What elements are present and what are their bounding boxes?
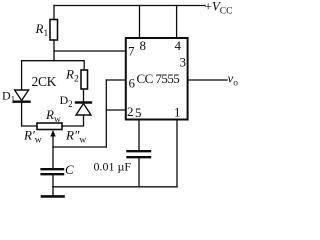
label CC 7555: [137, 71, 180, 86]
svg-text:vo: vo: [228, 71, 239, 89]
wire node to pin 7: [54, 50, 126, 52]
pin 5: [135, 105, 142, 120]
wire pin 8 stub: [139, 6, 141, 39]
svg-text:2: 2: [127, 104, 134, 119]
label D2: [60, 93, 73, 109]
svg-text:2CK: 2CK: [32, 74, 57, 89]
svg-text:3: 3: [180, 55, 187, 70]
svg-text:D2: D2: [60, 93, 73, 109]
wire wiper node down to C: [52, 147, 54, 168]
svg-text:R1: R1: [35, 21, 49, 39]
pin 1: [174, 105, 181, 120]
capacitor C: [42, 169, 63, 174]
svg-text:0.01 µF: 0.01 µF: [94, 160, 132, 174]
diode D1: [14, 90, 30, 102]
label +Vcc: [205, 0, 233, 17]
svg-text:+VCC: +VCC: [205, 0, 233, 17]
diode D2: [76, 103, 91, 116]
label R2: [65, 67, 79, 85]
svg-text:6: 6: [129, 76, 136, 91]
pin 4: [175, 38, 182, 53]
label R'w: [23, 128, 42, 146]
resistor R2: [81, 70, 88, 89]
resistor R1: [50, 20, 58, 41]
pin 7: [128, 44, 135, 59]
wire pin 5 stub: [138, 120, 140, 151]
wire D2 cathode to R2: [83, 89, 85, 103]
pin 3: [180, 55, 187, 70]
wire D1 cathode down: [22, 103, 37, 126]
wire R1 top: [53, 6, 55, 20]
wire top +Vcc rail: [54, 5, 205, 7]
ground: [42, 187, 64, 197]
wire pin 2 stub: [106, 109, 126, 111]
svg-text:R2: R2: [65, 67, 79, 85]
pin 2: [127, 104, 134, 119]
wire horizontal D1-R2 top: [22, 60, 84, 62]
svg-text:D1: D1: [2, 89, 15, 105]
label vo: [228, 71, 239, 89]
svg-text:CC 7555: CC 7555: [137, 71, 180, 86]
capacitor 0.01uF: [128, 151, 151, 157]
op-amp U1 CC7555 box: [126, 38, 188, 120]
wire pin 1 stub: [176, 120, 178, 187]
wire pin 3 output: [188, 79, 227, 81]
svg-text:R″w: R″w: [65, 128, 86, 146]
svg-text:4: 4: [175, 38, 182, 53]
wire R1 bottom to node: [53, 40, 55, 61]
wire tie vertical pins 2-6: [105, 80, 107, 147]
svg-text:8: 8: [140, 38, 147, 53]
label 2CK: [32, 74, 57, 89]
potentiometer Rw body: [37, 123, 62, 130]
svg-text:C: C: [65, 162, 74, 177]
label 0.01 uF: [94, 160, 132, 174]
pin 8: [140, 38, 147, 53]
label D1: [2, 89, 15, 105]
label R1: [35, 21, 49, 39]
svg-text:7: 7: [128, 44, 135, 59]
wire Rw right to D2 anode: [62, 115, 84, 126]
svg-text:1: 1: [174, 105, 181, 120]
wire D1 anode: [21, 61, 23, 90]
wire pin 6 stub: [106, 79, 126, 81]
label C: [65, 162, 74, 177]
label Rw: [45, 107, 61, 125]
wire C bottom to rail: [52, 175, 54, 186]
wiper arrow of Rw: [50, 130, 55, 147]
wire wiper to tie node: [53, 146, 106, 148]
wire pin 4 stub: [176, 6, 178, 39]
wire R2 top: [83, 61, 85, 70]
wire 0.01uF bottom to rail: [138, 159, 140, 187]
label R''w: [65, 128, 86, 146]
svg-text:5: 5: [135, 105, 142, 120]
wire bottom rail: [53, 186, 177, 188]
pin 6: [129, 76, 136, 91]
